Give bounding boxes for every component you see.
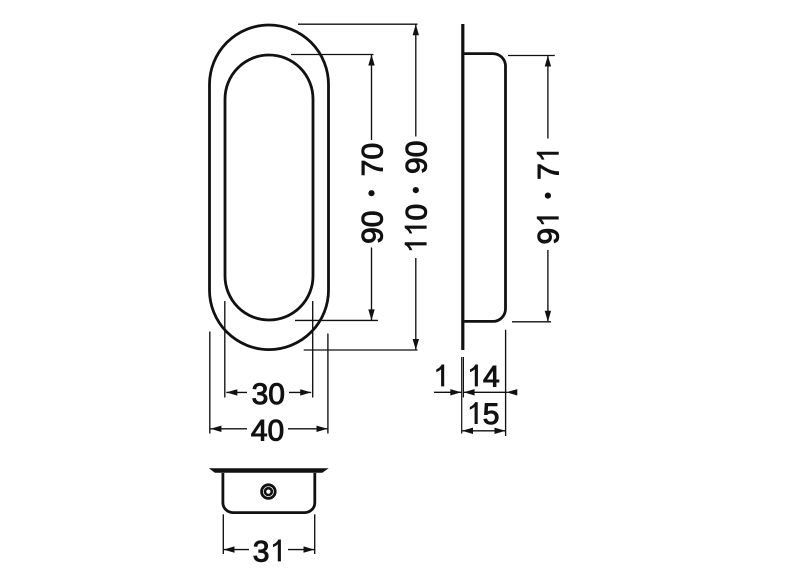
svg-text:5: 5 xyxy=(483,398,500,431)
side view flange plate xyxy=(461,24,464,350)
front view outer stadium outline xyxy=(210,25,329,350)
svg-text:3: 3 xyxy=(253,535,270,568)
bottom view flange bar xyxy=(209,468,329,472)
svg-text:70: 70 xyxy=(356,143,389,176)
extension line top outer (110/90 top) xyxy=(298,23,418,25)
extension line 30 left xyxy=(224,301,226,398)
side view cup outline xyxy=(464,54,505,322)
extension line top inner (90/70 top) xyxy=(291,54,374,56)
extension line 40 right xyxy=(327,334,329,434)
arrow 110/90 up xyxy=(413,24,419,35)
front view inner stadium outline xyxy=(225,55,313,320)
arrow 15 right xyxy=(495,428,506,434)
dimension line 110/90 vertical xyxy=(415,24,417,136)
arrow 31 left xyxy=(224,546,235,552)
arrow 110/90 down xyxy=(413,339,419,350)
label 15 xyxy=(470,402,478,424)
dimension line 90/70 vertical xyxy=(371,55,373,141)
svg-text:30: 30 xyxy=(252,378,285,411)
arrow 90/70 up xyxy=(368,55,374,66)
svg-text:9: 9 xyxy=(533,228,566,245)
extension line 30 right xyxy=(312,301,314,398)
bottom view cup outline xyxy=(223,473,315,513)
arrow 91/71 down xyxy=(545,311,551,322)
dimension line 30 xyxy=(226,391,247,393)
arrow 31 right xyxy=(304,546,315,552)
svg-text:90: 90 xyxy=(401,141,434,174)
arrow at cup edge left-pointing xyxy=(506,389,517,395)
bottom view screw hole outer circle xyxy=(262,485,276,499)
arrow 90/70 down xyxy=(368,309,374,320)
leader line for 1 xyxy=(434,391,461,393)
extension line 31 left xyxy=(222,514,224,554)
svg-text:40: 40 xyxy=(251,415,284,448)
dimension line 91/71 xyxy=(547,56,549,139)
label 1 xyxy=(436,365,444,387)
arrow 40 right xyxy=(317,426,328,432)
svg-text:0: 0 xyxy=(401,204,434,221)
arrow 40 left xyxy=(210,426,221,432)
dimension line 14 xyxy=(464,391,508,393)
extension line bottom inner (90/70 bottom) xyxy=(295,319,378,321)
svg-text:90: 90 xyxy=(356,211,389,244)
arrow 14 left-pointing xyxy=(464,389,475,395)
dimension line 40 xyxy=(210,428,247,430)
bottom view screw hole inner circle xyxy=(265,488,272,495)
label dot of 91/71 xyxy=(545,193,551,199)
extension line flange right edge xyxy=(462,357,464,398)
extension line flange left edge xyxy=(461,357,463,434)
extension line 40 left xyxy=(209,332,211,434)
label dot of 90/70 xyxy=(368,190,374,196)
extension line 31 right xyxy=(314,514,316,554)
extension line 91/71 top xyxy=(508,55,555,57)
arrow 30 right xyxy=(300,389,311,395)
extension line 91/71 bottom xyxy=(512,321,551,323)
svg-text:4: 4 xyxy=(483,360,500,393)
arrow 30 left xyxy=(226,389,237,395)
arrow 91/71 up xyxy=(545,56,551,67)
label dot of 110/90 xyxy=(413,187,419,193)
extension line bottom outer (110/90 bottom) xyxy=(304,349,418,351)
dimension line 15 xyxy=(462,430,506,432)
arrow 1 right-pointing xyxy=(450,389,461,395)
arrow 15 left xyxy=(462,428,473,434)
svg-text:7: 7 xyxy=(533,163,566,180)
dimension line 31 xyxy=(224,549,250,551)
extension line cup right edge xyxy=(505,330,507,436)
label 14 xyxy=(470,365,478,387)
